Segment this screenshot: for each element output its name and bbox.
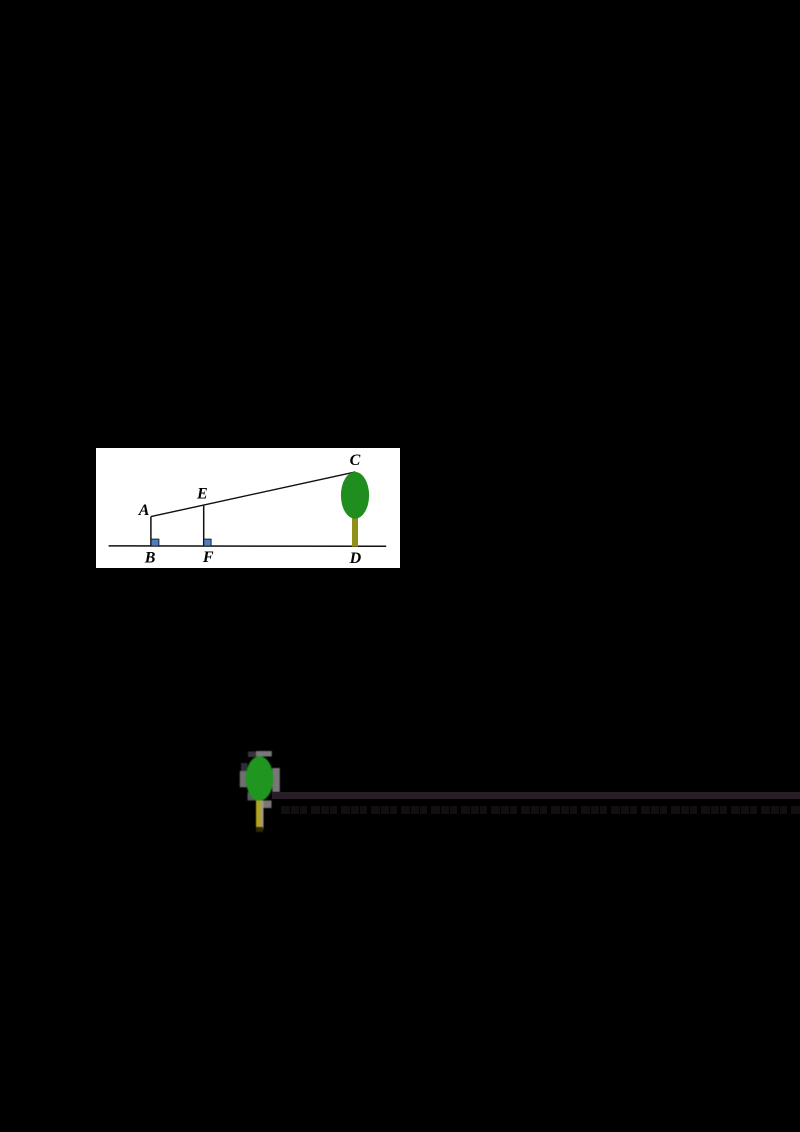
right angle square at B [151, 539, 159, 546]
gray remnant right block [272, 768, 280, 792]
gray remnant top strip [248, 752, 256, 758]
segment EF [202, 505, 204, 546]
svg-text:C: C [349, 451, 360, 468]
gray remnant bottom-right [264, 801, 272, 809]
gray remnant left blocks [241, 763, 248, 771]
trunk yellow left [256, 801, 261, 830]
ground line BD [108, 545, 386, 547]
tree trunk D [352, 517, 358, 547]
faint dash row [281, 806, 800, 815]
right angle square at F [203, 539, 210, 546]
svg-text:D: D [348, 550, 361, 567]
crown [246, 756, 274, 801]
svg-text:F: F [202, 548, 214, 565]
svg-text:B: B [143, 549, 155, 566]
white figure panel [96, 448, 400, 569]
sight line A-E-C [151, 472, 356, 517]
gray remnant bottom-left [248, 792, 257, 800]
faint ground band [272, 792, 800, 799]
segment AB [150, 516, 152, 545]
trunk dark tip [256, 827, 263, 832]
trunk tan right [261, 801, 264, 830]
svg-text:E: E [196, 485, 208, 502]
tree crown [341, 472, 369, 519]
lower tree sprite with gray remnants [225, 740, 305, 840]
svg-text:A: A [137, 501, 149, 518]
